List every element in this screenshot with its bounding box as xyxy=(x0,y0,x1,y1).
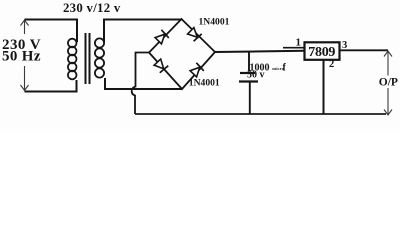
svg-text:O/P: O/P xyxy=(379,77,398,89)
capacitor C1 plates xyxy=(240,72,255,74)
wire bottom-left xyxy=(25,80,77,92)
output terminal line with arrows xyxy=(384,51,392,115)
svg-text:1N4001: 1N4001 xyxy=(189,78,220,89)
bridge rectifier diamond xyxy=(149,19,215,89)
wire top-left xyxy=(25,20,78,43)
svg-text:50 v: 50 v xyxy=(247,70,265,81)
capacitor C1 wire bottom xyxy=(249,83,251,115)
wire bridge minus: stub left, down, hop over, to bottom rail xyxy=(132,53,149,115)
diode D3 (left-bottom) xyxy=(153,58,168,73)
svg-text:2: 2 xyxy=(329,59,334,70)
transformer T1 secondary winding xyxy=(95,38,104,77)
wire secondary top to bridge xyxy=(104,20,182,43)
wire bridge plus to regulator xyxy=(215,51,305,52)
svg-text:f: f xyxy=(283,62,287,73)
svg-text:3: 3 xyxy=(342,40,347,51)
bottom rail xyxy=(135,113,386,115)
transformer T1 primary winding xyxy=(68,39,77,80)
wire pin1 stub xyxy=(283,47,305,49)
wire secondary bottom to bridge xyxy=(105,78,182,89)
pin 3 output wire xyxy=(340,49,389,51)
svg-text:50 Hz: 50 Hz xyxy=(2,48,41,64)
transformer core xyxy=(86,33,90,84)
svg-text:1: 1 xyxy=(296,36,302,48)
capacitor C1 branch wire top xyxy=(248,51,250,72)
svg-text:7809: 7809 xyxy=(308,45,335,60)
diode D1 (left-top) xyxy=(154,30,169,45)
regulator U1 7809 box xyxy=(305,42,340,60)
AC source line with arrows xyxy=(21,20,29,91)
svg-text:1N4001: 1N4001 xyxy=(199,16,230,27)
diode D2 (top-right) xyxy=(187,27,202,42)
svg-text:230 v/12 v: 230 v/12 v xyxy=(63,1,121,15)
diode D4 (bottom-right) xyxy=(189,63,204,78)
pin 2 wire xyxy=(323,59,325,114)
